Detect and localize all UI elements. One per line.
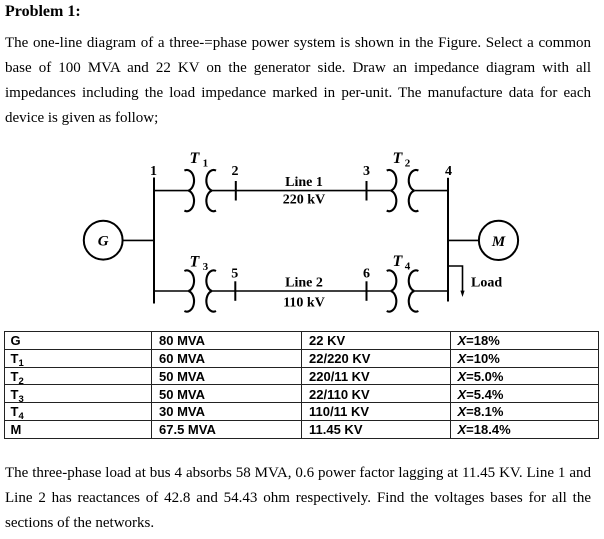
node 2 tick (235, 181, 237, 201)
transformer T3 (184, 270, 216, 311)
svg-text:G: G (98, 234, 109, 250)
wire bus1 to T3 (154, 290, 189, 292)
svg-text:T: T (190, 150, 201, 167)
transformer T2 (387, 170, 419, 211)
bus 4 (447, 178, 449, 302)
svg-text:3: 3 (203, 261, 209, 273)
svg-text:110 kV: 110 kV (283, 296, 325, 311)
wire bus 4 to motor M (448, 239, 479, 241)
svg-text:4: 4 (445, 164, 452, 179)
paragraph 1 (5, 33, 591, 53)
svg-text:2: 2 (232, 164, 239, 179)
bus 1 (153, 178, 155, 304)
svg-text:2: 2 (405, 158, 411, 170)
svg-text:T: T (393, 253, 404, 270)
svg-text:M: M (491, 234, 506, 250)
svg-text:3: 3 (363, 164, 370, 179)
wire G to bus 1 (122, 239, 154, 241)
generator G circle (84, 221, 123, 260)
data table (4, 331, 599, 439)
wire bus1 to T1 (154, 190, 189, 192)
motor M circle (479, 221, 518, 260)
node 6 tick (366, 281, 368, 301)
svg-text:5: 5 (231, 267, 238, 282)
wire T3 to node 5 to T4 (212, 290, 391, 292)
svg-text:1: 1 (150, 164, 157, 179)
paragraph 2 (5, 463, 591, 483)
title (5, 3, 81, 21)
svg-text:Line 1: Line 1 (285, 175, 323, 190)
svg-text:Line 2: Line 2 (285, 276, 323, 291)
wire T2 to bus 4 (414, 190, 448, 192)
transformer T4 (387, 270, 419, 311)
load feeder wire (448, 266, 463, 291)
svg-text:Load: Load (471, 276, 502, 291)
svg-text:T: T (393, 150, 404, 167)
svg-text:220 kV: 220 kV (283, 193, 325, 208)
node 5 tick (234, 281, 236, 301)
svg-text:6: 6 (363, 267, 370, 282)
transformer T1 (184, 170, 216, 211)
svg-text:4: 4 (405, 261, 411, 273)
one-line diagram (0, 0, 604, 330)
wire T4 to bus 4 (414, 290, 448, 292)
load arrowhead (460, 291, 464, 297)
node 3 tick (366, 181, 368, 201)
wire T1 to node 2 to T2 (212, 190, 391, 192)
svg-text:T: T (190, 254, 201, 271)
svg-text:1: 1 (203, 158, 209, 170)
